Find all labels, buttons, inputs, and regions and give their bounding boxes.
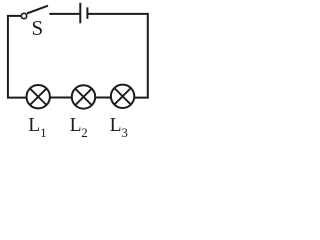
svg-text:S: S	[32, 16, 44, 40]
svg-text:2: 2	[81, 125, 88, 140]
svg-text:3: 3	[121, 125, 128, 140]
svg-text:1: 1	[40, 125, 47, 140]
svg-text:L: L	[28, 115, 40, 136]
svg-text:L: L	[70, 115, 82, 136]
svg-text:L: L	[110, 115, 122, 136]
